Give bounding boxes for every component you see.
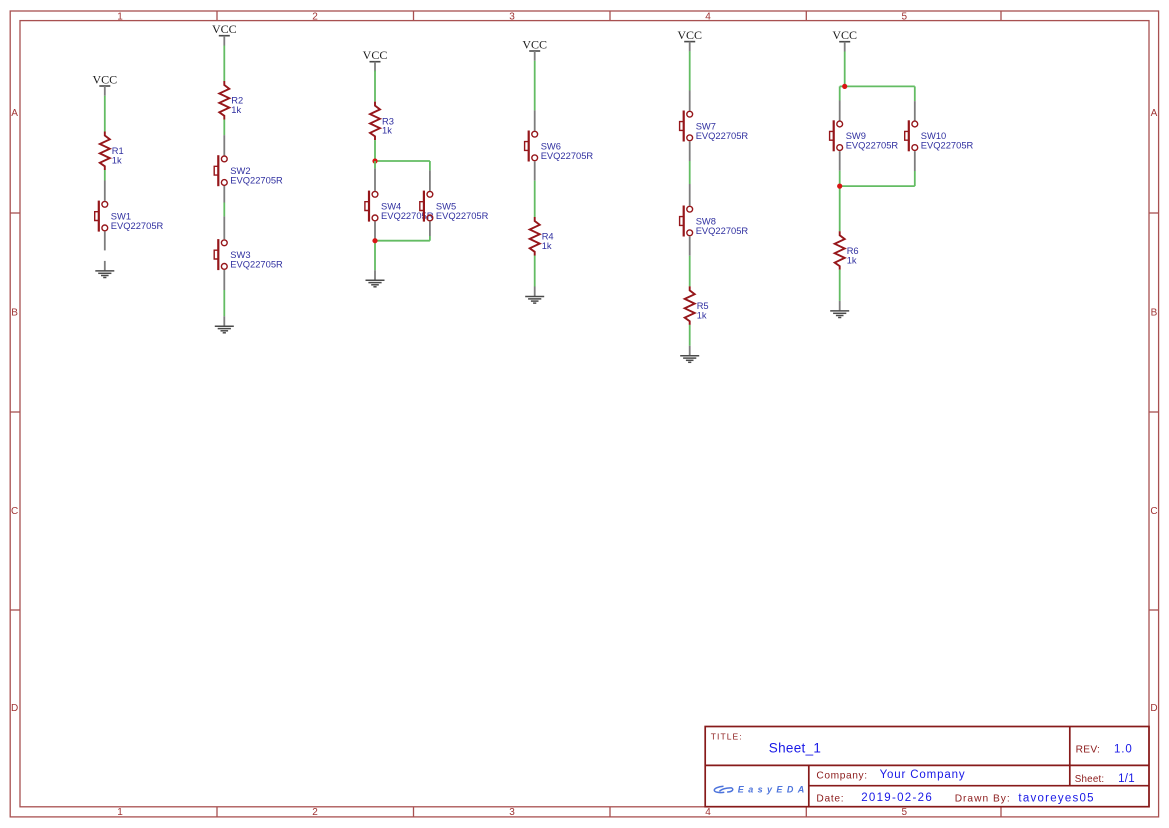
pin SW9.1 (839, 101, 841, 121)
pin SW3.1 (223, 216, 225, 239)
svg-text:1: 1 (117, 12, 123, 23)
wire to ground (374, 241, 376, 271)
svg-text:EVQ22705R: EVQ22705R (846, 141, 899, 151)
ground (circuit 6) (830, 301, 849, 318)
wire (689, 256, 691, 287)
pin SW4.1 (374, 168, 376, 191)
pin SW5.1 (429, 170, 431, 191)
svg-text:B: B (1151, 308, 1158, 319)
svg-text:5: 5 (902, 807, 908, 818)
wire node C horizontal (840, 85, 915, 87)
switch SW4 (365, 191, 378, 222)
switch SW5 (420, 191, 433, 222)
junction node A (372, 158, 377, 163)
svg-text:REV:: REV: (1076, 744, 1101, 755)
wire node A horizontal (375, 160, 430, 162)
wire to ground (839, 270, 841, 301)
resistor R5 (685, 286, 695, 325)
power VCC net VCC (circuit 3) (363, 48, 388, 71)
pin SW8.1 (689, 184, 691, 206)
switch SW3 (214, 239, 227, 270)
svg-text:A: A (1151, 108, 1158, 119)
wire right branch lower (914, 171, 916, 186)
wire left branch (839, 86, 841, 100)
svg-text:EVQ22705R: EVQ22705R (230, 176, 283, 186)
wire to R6 (839, 186, 841, 231)
switch SW6 (525, 131, 538, 162)
resistor R4 (530, 217, 540, 256)
svg-text:1k: 1k (231, 105, 241, 115)
wire (534, 61, 536, 111)
wire right branch (914, 86, 916, 101)
label R6 1k (847, 246, 859, 265)
ground (circuit 3) (366, 270, 385, 287)
label SW2 EVQ22705R (230, 166, 283, 185)
svg-text:1k: 1k (847, 255, 857, 265)
resistor R3 (370, 102, 380, 141)
label R2 1k (231, 96, 243, 115)
wire (374, 140, 376, 161)
svg-text:EVQ22705R: EVQ22705R (541, 151, 594, 161)
frame column numbers bottom (117, 807, 907, 818)
pin SW1.2 (104, 231, 106, 250)
label SW1 EVQ22705R (111, 212, 164, 231)
power VCC net VCC (circuit 5) (677, 28, 702, 51)
switch SW10 (905, 120, 918, 151)
pin SW3.2 (223, 270, 225, 290)
power VCC net VCC (circuit 2) (212, 22, 237, 45)
pin SW7.1 (689, 91, 691, 111)
frame row letters left (11, 108, 18, 714)
wire (223, 290, 225, 316)
wire (534, 181, 536, 217)
svg-text:1k: 1k (697, 310, 707, 320)
svg-text:2: 2 (312, 807, 318, 818)
switch SW1 (95, 201, 108, 232)
junction node D (837, 184, 842, 189)
label R1 1k (112, 146, 124, 165)
svg-text:4: 4 (705, 12, 711, 23)
power VCC net VCC (circuit 1) (92, 72, 117, 95)
svg-text:EVQ22705R: EVQ22705R (696, 226, 749, 236)
svg-text:Sheet:: Sheet: (1075, 774, 1105, 785)
pin SW8.2 (689, 236, 691, 256)
svg-text:Sheet_1: Sheet_1 (769, 741, 821, 756)
ground (circuit 4) (525, 287, 544, 304)
power VCC net VCC (circuit 6) (832, 28, 857, 51)
wire (689, 51, 691, 90)
svg-text:A: A (11, 108, 18, 119)
pin SW10.1 (914, 101, 916, 121)
svg-text:1.0: 1.0 (1114, 743, 1133, 755)
svg-text:2: 2 (312, 12, 318, 23)
pin SW10.2 (914, 151, 916, 171)
svg-text:EasyEDA: EasyEDA (738, 785, 809, 795)
svg-text:Company:: Company: (816, 770, 867, 781)
pin SW6.2 (534, 161, 536, 180)
frame column numbers top (117, 12, 907, 23)
wire right branch (429, 161, 431, 170)
switch SW7 (680, 111, 693, 142)
label SW3 EVQ22705R (230, 250, 283, 269)
wire (223, 203, 225, 217)
ground (circuit 2) (215, 316, 234, 333)
svg-text:EVQ22705R: EVQ22705R (381, 211, 434, 221)
svg-text:EVQ22705R: EVQ22705R (111, 221, 164, 231)
svg-text:EVQ22705R: EVQ22705R (921, 141, 974, 151)
wire (689, 161, 691, 184)
wire right branch lower (429, 236, 431, 241)
wire left branch lower (839, 171, 841, 186)
label SW10 EVQ22705R (921, 131, 974, 150)
junction node B (372, 238, 377, 243)
wire (223, 120, 225, 136)
pin SW6.1 (534, 110, 536, 130)
svg-text:3: 3 (509, 807, 515, 818)
junction node C (842, 84, 847, 89)
resistor R2 (219, 81, 229, 120)
pin SW9.2 (839, 151, 841, 171)
svg-text:TITLE:: TITLE: (711, 732, 743, 742)
pin SW4.2 (374, 221, 376, 240)
svg-text:Your Company: Your Company (880, 769, 966, 781)
resistor R6 (835, 231, 845, 269)
power VCC net VCC (circuit 4) (522, 37, 547, 60)
wire (534, 256, 536, 287)
svg-text:EVQ22705R: EVQ22705R (696, 131, 749, 141)
label SW6 EVQ22705R (541, 141, 594, 160)
switch SW2 (214, 155, 227, 186)
resistor R1 (100, 132, 110, 171)
wire (223, 46, 225, 82)
switch SW8 (680, 206, 693, 237)
ground (circuit 5) (680, 346, 699, 363)
pin SW2.1 (223, 135, 225, 155)
pin SW2.2 (223, 186, 225, 203)
title block frame (705, 727, 1149, 807)
wire (689, 325, 691, 346)
label SW4 EVQ22705R (381, 202, 434, 221)
label SW8 EVQ22705R (696, 216, 749, 235)
svg-text:Date:: Date: (816, 793, 844, 804)
svg-text:D: D (1150, 703, 1157, 714)
pin SW7.2 (689, 141, 691, 161)
svg-text:C: C (1150, 506, 1157, 517)
frame row letters right (1150, 108, 1157, 714)
wire (844, 52, 846, 87)
svg-text:5: 5 (902, 12, 908, 23)
switch SW9 (830, 120, 843, 151)
label R4 1k (542, 232, 554, 251)
svg-text:C: C (11, 506, 18, 517)
label R5 1k (697, 301, 709, 320)
svg-text:1: 1 (117, 807, 123, 818)
label R3 1k (382, 116, 394, 135)
svg-text:3: 3 (509, 12, 515, 23)
svg-text:tavoreyes05: tavoreyes05 (1018, 793, 1094, 805)
wire left branch (374, 161, 376, 168)
EasyEDA logo icon (714, 786, 733, 792)
svg-text:Drawn By:: Drawn By: (955, 793, 1011, 804)
pin SW5.2 (429, 221, 431, 236)
svg-text:EVQ22705R: EVQ22705R (230, 259, 283, 269)
svg-text:D: D (11, 703, 18, 714)
svg-text:1/1: 1/1 (1118, 773, 1135, 785)
wire (374, 71, 376, 102)
wire node D horizontal (840, 185, 915, 187)
label SW5 EVQ22705R (436, 202, 489, 221)
svg-text:EVQ22705R: EVQ22705R (436, 211, 489, 221)
svg-text:2019-02-26: 2019-02-26 (861, 792, 933, 804)
wire (104, 170, 106, 181)
svg-text:B: B (11, 308, 18, 319)
svg-text:1k: 1k (542, 241, 552, 251)
pin SW1.1 (104, 181, 106, 201)
svg-text:1k: 1k (112, 156, 122, 166)
svg-text:4: 4 (705, 807, 711, 818)
svg-text:1k: 1k (382, 126, 392, 136)
wire (104, 96, 106, 132)
label SW9 EVQ22705R (846, 131, 899, 150)
ground (circuit 1) (95, 261, 114, 278)
label SW7 EVQ22705R (696, 121, 749, 140)
wire node B horizontal (375, 240, 430, 242)
